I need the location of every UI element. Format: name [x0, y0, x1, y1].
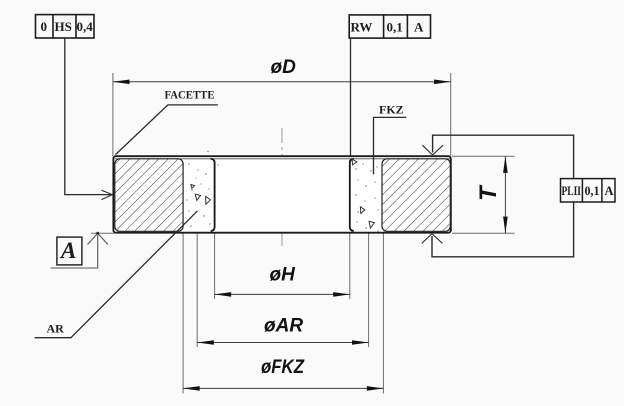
svg-text:A: A [605, 184, 614, 198]
svg-text:T: T [475, 184, 502, 201]
svg-text:øD: øD [271, 57, 297, 78]
svg-text:øH: øH [270, 264, 297, 285]
svg-text:FKZ: FKZ [379, 103, 404, 117]
svg-text:A: A [414, 19, 424, 34]
svg-text:FACETTE: FACETTE [165, 88, 215, 102]
svg-text:0: 0 [41, 19, 48, 34]
svg-text:0,1: 0,1 [585, 184, 600, 198]
svg-text:RW: RW [351, 19, 373, 34]
svg-text:0,1: 0,1 [387, 19, 403, 34]
svg-text:0,4: 0,4 [77, 19, 94, 34]
svg-text:PLII: PLII [562, 184, 582, 198]
svg-text:A: A [59, 238, 76, 263]
svg-text:øAR: øAR [264, 316, 303, 337]
svg-text:HS: HS [55, 19, 72, 34]
svg-text:AR: AR [47, 322, 65, 336]
svg-text:øFKZ: øFKZ [261, 357, 305, 378]
